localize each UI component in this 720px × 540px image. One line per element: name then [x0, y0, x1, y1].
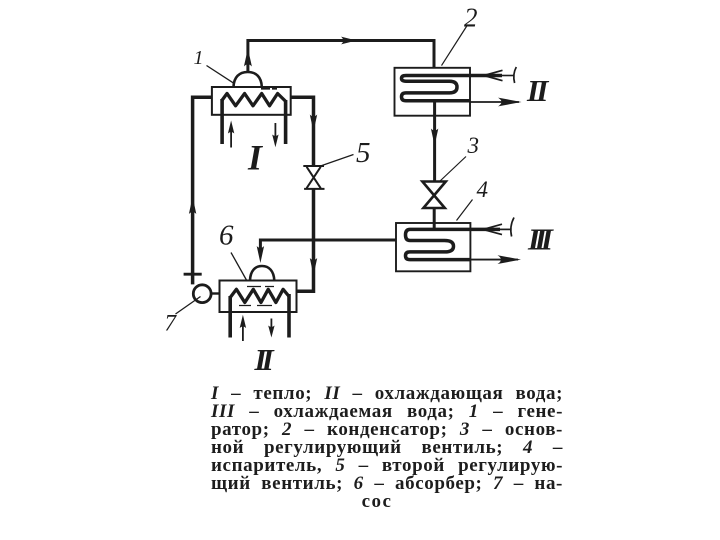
pointer from label 6 to absorber — [231, 253, 247, 282]
arrow down on right branch — [310, 115, 317, 132]
generator heating zigzag coil — [222, 94, 286, 106]
absorber level dashes — [247, 286, 274, 288]
svg-text:5: 5 — [356, 137, 371, 169]
wire: condenser outlet down to valve 3 — [433, 101, 436, 181]
wire: valve 5 down and into absorber right side — [297, 189, 314, 291]
wire: generator right outlet down to valve 5 — [291, 97, 314, 165]
absorber cooling zigzag coil — [230, 289, 289, 302]
svg-text:II: II — [254, 342, 275, 377]
condenser C2 box — [395, 68, 471, 116]
tee tick on left wire — [184, 273, 202, 276]
inlet end tick — [511, 218, 514, 237]
small arrow down under generator (heat out) — [274, 123, 276, 136]
evaporator water coil — [406, 229, 501, 259]
arrow up on vapor line — [244, 49, 252, 67]
absorber dome — [250, 266, 274, 281]
generator dome — [234, 72, 262, 87]
valve 5 (second regulating valve) — [303, 166, 324, 189]
svg-text:III: III — [527, 222, 554, 257]
pointer from label 5 to valve — [321, 155, 354, 167]
svg-text:6: 6 — [219, 220, 234, 252]
small arrow up under generator (heat in) — [230, 126, 232, 148]
generator U1 box — [212, 87, 291, 115]
wire: evaporator vapor to absorber dome — [260, 240, 396, 248]
valve 3 (main regulating valve) — [422, 182, 445, 209]
chilled water outlet arrow III — [470, 259, 518, 261]
generator level dashes — [261, 88, 277, 90]
condenser water coil — [402, 76, 503, 101]
arrow down condenser outlet — [431, 129, 438, 146]
absorber A6 box — [220, 281, 297, 313]
svg-text:7: 7 — [165, 311, 178, 336]
svg-text:3: 3 — [467, 133, 480, 158]
absorber left pipe stub — [228, 296, 232, 338]
inlet end tick — [514, 67, 516, 83]
arrow down on valve5 wire — [310, 258, 317, 276]
generator right pipe stub — [284, 100, 288, 144]
arrow down into absorber dome — [257, 246, 264, 263]
pointer from label 2 to condenser — [442, 26, 467, 66]
svg-text:4: 4 — [477, 177, 489, 202]
wire: pump to absorber — [211, 292, 220, 294]
svg-text:II: II — [526, 73, 549, 108]
cooling water inlet arrow II — [502, 75, 515, 77]
arrow right on top wire — [341, 37, 357, 45]
wire: generator vapor line to condenser — [248, 41, 434, 73]
chilled water inlet arrow III — [500, 228, 512, 230]
cooling water outlet arrow II — [470, 101, 519, 103]
svg-text:1: 1 — [194, 47, 204, 69]
pointer from label 3 to valve — [440, 157, 467, 182]
wire: valve 3 to evaporator — [433, 208, 436, 230]
arrow up on left wire — [189, 197, 196, 215]
pointer from label 4 to evaporator — [457, 200, 473, 221]
absorber right pipe stub — [287, 294, 291, 338]
evaporator E4 box — [396, 223, 470, 271]
pointer from label 7 to pump — [176, 297, 201, 315]
wire: generator left outlet to pump — [193, 97, 212, 284]
pump P7 circle — [193, 285, 211, 303]
legend text block — [211, 385, 563, 511]
small arrow up under absorber — [242, 320, 244, 341]
generator left pipe stub — [220, 99, 224, 144]
small arrow down under absorber — [270, 319, 272, 331]
svg-text:I: I — [247, 138, 264, 178]
pointer from label 1 to generator dome — [207, 66, 234, 84]
